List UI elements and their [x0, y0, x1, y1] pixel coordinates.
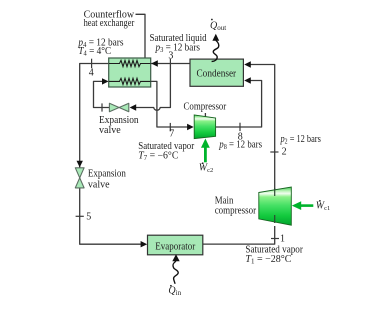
svg-text:valve: valve [88, 179, 110, 190]
svg-text:Qin: Qin [168, 286, 181, 298]
svg-text:p3 = 12 bars: p3 = 12 bars [155, 42, 201, 54]
svg-text:heat exchanger: heat exchanger [84, 17, 135, 28]
svg-text:p2 = 12 bars: p2 = 12 bars [280, 133, 322, 145]
svg-text:Wc2: Wc2 [199, 163, 213, 175]
svg-text:7: 7 [169, 128, 174, 139]
svg-text:Main: Main [215, 196, 234, 207]
svg-text:2: 2 [282, 146, 287, 157]
svg-text:Compressor: Compressor [184, 102, 228, 113]
svg-text:1: 1 [280, 234, 285, 245]
svg-text:Qout: Qout [210, 21, 226, 33]
svg-text:5: 5 [86, 212, 91, 223]
svg-text:Condenser: Condenser [197, 68, 237, 79]
svg-text:Expansion: Expansion [99, 115, 139, 126]
svg-text:p8 = 12 bars: p8 = 12 bars [218, 140, 262, 151]
svg-text:Expansion: Expansion [88, 169, 126, 180]
svg-text:4: 4 [89, 68, 94, 79]
svg-text:Wc1: Wc1 [316, 200, 330, 212]
svg-text:compressor: compressor [215, 206, 257, 217]
svg-text:T4 = 4°C: T4 = 4°C [78, 46, 111, 58]
svg-text:3: 3 [168, 50, 173, 61]
svg-text:Evaporator: Evaporator [155, 242, 196, 253]
svg-text:valve: valve [99, 125, 121, 136]
svg-text:T1 = −28°C: T1 = −28°C [245, 254, 291, 266]
